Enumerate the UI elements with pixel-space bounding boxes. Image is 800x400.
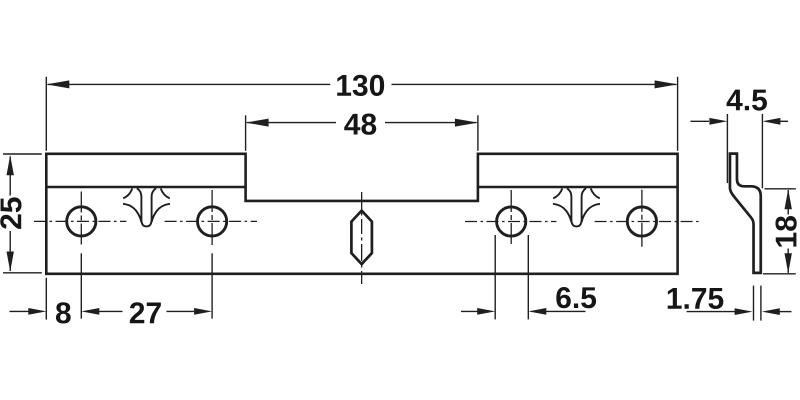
dim 6.5 extension line right bbox=[527, 235, 529, 319]
hole 1 vertical centre line bbox=[80, 192, 82, 249]
horizontal centre line right group bbox=[465, 221, 556, 223]
dim 8 text bbox=[56, 302, 71, 323]
dim 1.75 extension line left bbox=[753, 286, 755, 321]
dim 1.75 text bbox=[668, 288, 724, 309]
dim 130 extension line right bbox=[677, 77, 679, 151]
dim 48 line bbox=[247, 122, 477, 124]
dim 6.5 right arrowhead + tail bbox=[528, 308, 546, 315]
dim 27 extension line at hole 2 bbox=[211, 253, 213, 318]
stamped tab (left butterfly) bbox=[123, 188, 170, 226]
dim 18 text bbox=[775, 216, 796, 247]
dim 48 extension line left bbox=[245, 115, 247, 151]
dim 25 text bbox=[0, 197, 21, 228]
dim 1.75 extension line right bbox=[760, 286, 762, 321]
dim 27 left arrowhead + tail bbox=[81, 308, 99, 315]
side-view profile bbox=[730, 154, 761, 273]
dim 6.5 text bbox=[556, 287, 596, 308]
dim 130 line bbox=[48, 83, 677, 85]
dim 4.5 left tail + arrowhead bbox=[691, 120, 710, 122]
dim 130 text bbox=[337, 75, 384, 96]
hole 3 bbox=[497, 207, 526, 236]
dim 25 extension line top bbox=[3, 153, 42, 155]
dim 8/27 extension line at part edge bbox=[45, 278, 47, 320]
hole 4 vertical centre line bbox=[641, 190, 643, 254]
dim 1.75 left tail + arrowhead bbox=[687, 311, 735, 313]
hole 2 vertical centre line bbox=[211, 190, 213, 248]
dim 18 line bbox=[787, 190, 789, 273]
flange fold line right bbox=[478, 186, 678, 189]
hole 3 vertical centre line bbox=[510, 190, 512, 246]
hole 2 bbox=[198, 207, 227, 236]
dim 4.5 extension line right bbox=[761, 114, 763, 188]
dim 1.75 right arrowhead + tail bbox=[762, 308, 780, 315]
dim 18 extension line top bbox=[765, 188, 796, 190]
dim 4.5 text bbox=[727, 90, 767, 111]
dim 25 arrowheads bbox=[7, 155, 14, 271]
dim 18 extension line bottom bbox=[763, 273, 796, 275]
dim 8/27 extension line at hole 1 bbox=[80, 253, 82, 318]
dim 6.5 left tail + arrowhead bbox=[461, 310, 478, 312]
horizontal centre line left group bbox=[34, 220, 126, 222]
dim 6.5 extension line left bbox=[494, 235, 496, 319]
dim 48 arrowheads bbox=[246, 119, 478, 127]
dim 27 text bbox=[130, 302, 161, 323]
dim 27 right tail + arrowhead bbox=[167, 310, 195, 312]
dim 130 arrowheads bbox=[46, 80, 677, 88]
dim 18 arrowheads bbox=[785, 189, 792, 273]
dim 25 extension line bottom bbox=[3, 272, 42, 274]
hole 4 bbox=[627, 207, 656, 236]
dim 130 extension line left bbox=[45, 77, 47, 151]
dim 8 tail + arrowhead bbox=[10, 310, 29, 312]
dim 4.5 right arrowhead + tail bbox=[762, 118, 780, 125]
stamped tab (right butterfly) bbox=[553, 188, 600, 226]
dim 48 text bbox=[344, 114, 376, 135]
bracket front-view outline bbox=[46, 154, 677, 274]
dim 25 line bbox=[9, 157, 11, 272]
hole 1 bbox=[67, 207, 96, 236]
dim 48 extension line right bbox=[477, 115, 479, 151]
dim 4.5 extension line left bbox=[726, 114, 728, 183]
flange fold line left bbox=[46, 186, 245, 189]
slot vertical centre line bbox=[361, 192, 363, 284]
center slot (elongated hexagon) bbox=[351, 211, 372, 265]
